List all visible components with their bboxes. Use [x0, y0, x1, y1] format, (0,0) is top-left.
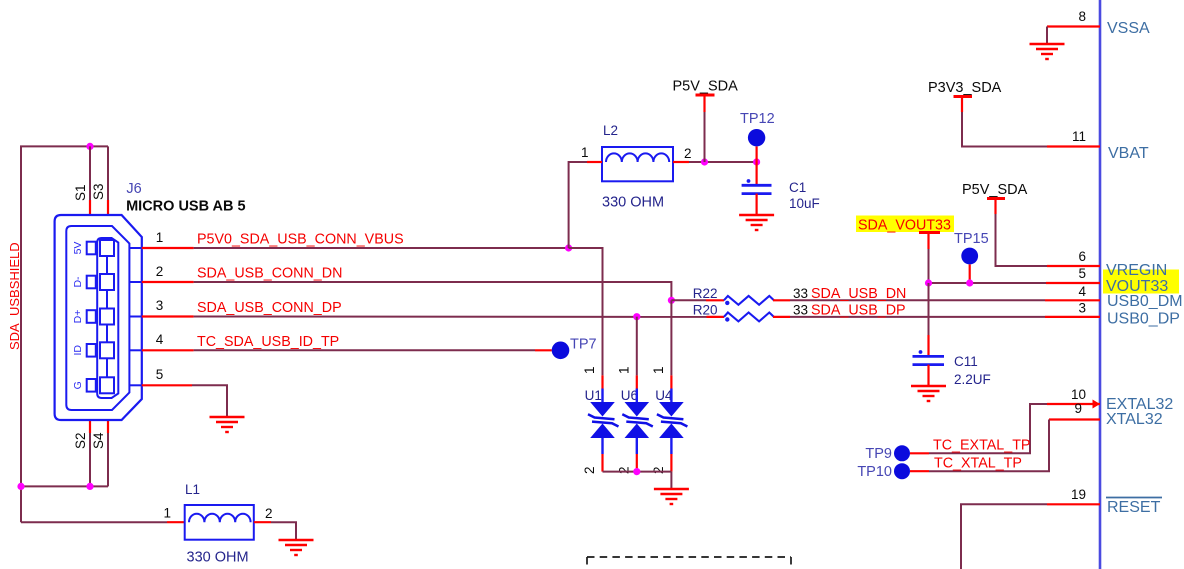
svg-text:6: 6: [1078, 249, 1086, 264]
J6 pin 5 contact: [87, 377, 142, 393]
svg-text:SDA_USB_DN: SDA_USB_DN: [811, 286, 906, 302]
wire DP: [194, 316, 707, 318]
dashed box: [587, 557, 791, 569]
wire VOUT33 row: [929, 282, 1047, 284]
svg-text:1: 1: [156, 230, 164, 245]
wire S1: [89, 146, 91, 200]
svg-text:S1: S1: [73, 184, 88, 201]
junction P5V: [701, 158, 708, 165]
svg-text:S2: S2: [73, 432, 88, 449]
wire L1 to ground: [271, 522, 296, 540]
svg-text:1: 1: [582, 366, 597, 374]
pin 5 stub: [1046, 282, 1100, 284]
pin 6 stub: [1047, 265, 1100, 267]
svg-text:ID: ID: [72, 345, 84, 356]
svg-text:4: 4: [156, 332, 164, 347]
svg-text:C1: C1: [789, 180, 806, 195]
svg-text:11: 11: [1072, 129, 1086, 144]
wire P5V_SDA drop: [704, 112, 706, 162]
power symbol P3V3_SDA: [928, 80, 1002, 112]
svg-text:R20: R20: [693, 303, 718, 318]
wire shield bottom bus: [21, 485, 108, 487]
wire U6 drop: [636, 317, 638, 376]
svg-text:SDA_USBSHIELD: SDA_USBSHIELD: [7, 242, 22, 350]
pin 9 stub: [1049, 418, 1100, 420]
svg-text:USB0_DM: USB0_DM: [1107, 293, 1183, 310]
wire U4 drop: [670, 300, 672, 375]
wire L2 riser: [569, 162, 587, 248]
svg-text:2: 2: [582, 466, 597, 474]
svg-text:L1: L1: [185, 482, 200, 497]
wire VBUS: [194, 247, 569, 249]
pin 3 stub: [142, 315, 194, 317]
svg-text:5: 5: [156, 367, 164, 382]
svg-text:D+: D+: [72, 310, 84, 324]
svg-text:TC_SDA_USB_ID_TP: TC_SDA_USB_ID_TP: [197, 334, 339, 350]
wire S2: [89, 420, 91, 433]
junction bottom bus S2: [86, 483, 93, 490]
TVS diode U4: [655, 375, 687, 471]
J6 pin 2 contact: [87, 274, 142, 308]
svg-text:S3: S3: [91, 183, 106, 200]
svg-text:P5V0_SDA_USB_CONN_VBUS: P5V0_SDA_USB_CONN_VBUS: [197, 232, 404, 248]
svg-text:MICRO USB AB 5: MICRO USB AB 5: [126, 199, 246, 215]
wire pin9 to TP10: [929, 420, 1049, 472]
svg-text:1: 1: [163, 506, 171, 521]
svg-text:TP7: TP7: [570, 337, 597, 353]
svg-text:19: 19: [1071, 487, 1086, 502]
wire S4: [107, 420, 109, 433]
svg-text:TC_EXTAL_TP: TC_EXTAL_TP: [933, 438, 1030, 454]
svg-text:8: 8: [1078, 9, 1086, 24]
resistor R20: [693, 303, 790, 322]
resistor R22: [671, 286, 790, 305]
IC boundary line: [1099, 0, 1102, 569]
junction bottom bus left: [17, 483, 24, 490]
svg-text:330 OHM: 330 OHM: [187, 550, 249, 566]
wire shield top bus: [21, 146, 108, 522]
J6 pin 3 contact: [87, 309, 142, 343]
inductor L1: [163, 482, 272, 566]
wire VOUT33 row down to C11: [928, 283, 930, 335]
svg-text:1: 1: [651, 366, 666, 374]
svg-text:33: 33: [793, 302, 808, 317]
svg-text:USB0_DP: USB0_DP: [1107, 311, 1180, 328]
svg-text:SDA_USB_CONN_DP: SDA_USB_CONN_DP: [197, 300, 342, 316]
svg-text:2: 2: [265, 506, 273, 521]
TVS diode U6: [621, 375, 653, 471]
svg-text:U6: U6: [621, 388, 638, 403]
wire SDA_VOUT33 down to VOUT33 row: [928, 249, 930, 283]
pin 11 stub: [1047, 145, 1100, 147]
wire S3: [107, 146, 109, 200]
ground at J6 pin 5: [210, 417, 245, 432]
capacitor C1: [742, 179, 820, 211]
junction DN/R22/U4: [668, 297, 675, 304]
wire P5V_SDA to pin 6: [996, 214, 1048, 266]
pin 8 stub: [1047, 25, 1100, 27]
svg-text:D-: D-: [72, 276, 84, 288]
test point TP7: [552, 337, 597, 360]
pin 10 stub with arrow: [1047, 403, 1100, 405]
wire VBUS to U1: [569, 248, 603, 375]
wire SDA_USB_DN to pin 4: [790, 299, 1045, 301]
pin 5 name VOUT33 highlight box: [1103, 270, 1179, 294]
svg-text:3: 3: [156, 298, 164, 313]
svg-text:TP9: TP9: [865, 446, 892, 462]
junction TVS bus: [633, 468, 640, 475]
wire C1 to ground: [755, 194, 757, 215]
connector J6 outer outline: [55, 215, 142, 420]
svg-text:TP12: TP12: [740, 111, 775, 127]
svg-text:2: 2: [684, 146, 692, 161]
svg-text:2: 2: [651, 466, 666, 474]
svg-text:XTAL32: XTAL32: [1106, 411, 1163, 428]
svg-text:SDA_USB_CONN_DN: SDA_USB_CONN_DN: [197, 266, 342, 282]
pin 4 stub: [1045, 299, 1100, 301]
wire P3V3_SDA to pin 11: [962, 112, 1047, 147]
svg-text:VSSA: VSSA: [1107, 20, 1150, 37]
junction DP/U6: [633, 313, 640, 320]
pin 4 stub: [142, 349, 194, 351]
svg-text:5: 5: [1078, 266, 1086, 281]
wire pin 19 down: [961, 504, 1047, 569]
ground at L1: [279, 540, 314, 555]
ground at pin 8: [1030, 44, 1065, 59]
wire pin10 to TP9: [929, 404, 1047, 453]
svg-text:P5V_SDA: P5V_SDA: [962, 182, 1028, 198]
pin 19 stub: [1047, 503, 1100, 505]
junction VBUS/L2: [565, 244, 572, 251]
wire junction to C1: [755, 162, 757, 185]
J6 pin 4 contact: [87, 342, 142, 377]
svg-text:VBAT: VBAT: [1108, 145, 1149, 162]
svg-text:1: 1: [581, 145, 589, 160]
pin 1 stub: [142, 247, 194, 249]
power symbol P5V_SDA (top): [673, 79, 739, 113]
pin 19 name RESET with overline: [1106, 498, 1162, 517]
svg-text:2.2UF: 2.2UF: [954, 372, 991, 387]
wire TVS bottom bus: [603, 471, 672, 473]
svg-text:J6: J6: [126, 181, 141, 197]
wire shield to L1: [21, 521, 167, 523]
svg-text:9: 9: [1074, 401, 1082, 416]
svg-text:P5V_SDA: P5V_SDA: [673, 79, 739, 95]
connector J6 tongue outline: [97, 238, 118, 398]
L2 pin2 lead: [673, 161, 689, 163]
capacitor C11: [913, 350, 991, 387]
svg-text:4: 4: [1078, 284, 1086, 299]
svg-text:10: 10: [1071, 387, 1086, 402]
wire pin8 to ground: [1046, 27, 1048, 45]
wire TVS bus to ground: [670, 472, 672, 489]
ground under C1: [739, 215, 774, 230]
svg-text:SDA_USB_DP: SDA_USB_DP: [811, 302, 906, 318]
svg-text:330 OHM: 330 OHM: [602, 195, 664, 211]
J6 pin 1 contact: [87, 239, 142, 275]
pin 3 stub: [1045, 316, 1100, 318]
net label SDA_VOUT33 highlighted: [856, 216, 954, 250]
ground under C11: [911, 386, 946, 401]
pin 5 stub: [142, 384, 192, 386]
junction TP12: [753, 158, 760, 165]
pin 2 stub: [142, 281, 194, 283]
wire pin5 to ground: [192, 385, 227, 417]
wire DN: [194, 282, 672, 300]
wire C11 to ground: [927, 365, 929, 386]
svg-text:VREGIN: VREGIN: [1106, 262, 1167, 279]
svg-text:S4: S4: [91, 432, 106, 449]
svg-text:TP15: TP15: [954, 231, 989, 247]
svg-text:2: 2: [156, 264, 164, 279]
svg-text:L2: L2: [603, 123, 618, 138]
svg-text:1: 1: [616, 366, 631, 374]
L2 pin1 lead: [587, 161, 602, 163]
svg-text:U1: U1: [585, 388, 602, 403]
svg-text:33: 33: [793, 286, 808, 301]
junction top bus: [86, 143, 93, 150]
svg-text:TP10: TP10: [857, 464, 892, 480]
svg-text:C11: C11: [954, 354, 978, 369]
junction VOUT33/SDA_VOUT33: [925, 279, 932, 286]
test point TP9: [865, 445, 910, 462]
svg-text:G: G: [72, 381, 84, 389]
svg-text:TC_XTAL_TP: TC_XTAL_TP: [934, 456, 1022, 472]
wire ID to TP7: [194, 349, 535, 351]
svg-text:RESET: RESET: [1107, 499, 1161, 516]
svg-text:R22: R22: [693, 286, 718, 301]
power symbol P5V_SDA (right): [962, 182, 1028, 214]
svg-text:5V: 5V: [72, 242, 84, 255]
test point TP15: [954, 231, 989, 283]
test point TP10: [857, 463, 910, 480]
svg-text:3: 3: [1078, 301, 1086, 316]
test point TP12: [740, 111, 775, 162]
svg-text:10uF: 10uF: [789, 196, 820, 211]
ground under TVS: [654, 489, 689, 504]
wire L2 out: [689, 161, 757, 163]
svg-text:2: 2: [616, 466, 631, 474]
inductor L2: [581, 123, 692, 211]
junction TP15: [966, 279, 973, 286]
wire SDA_USB_DP to pin 3: [790, 316, 1045, 318]
TVS diode U1: [585, 375, 619, 471]
connector J6 inner outline: [66, 226, 129, 410]
svg-text:P3V3_SDA: P3V3_SDA: [928, 80, 1002, 96]
